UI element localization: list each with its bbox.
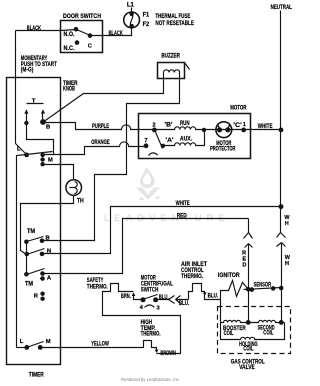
air inlet control thermostat <box>189 284 205 300</box>
motor node A <box>161 144 165 148</box>
high temp thermostat loop <box>103 284 181 354</box>
door switch contact C <box>88 33 93 38</box>
svg-text:A: A <box>47 275 52 281</box>
svg-text:BROWN: BROWN <box>160 350 176 357</box>
svg-text:C: C <box>88 43 93 49</box>
svg-text:N.O.: N.O. <box>64 31 75 38</box>
svg-text:THERMO.: THERMO. <box>141 331 161 338</box>
motor centrifugal arc <box>149 153 158 156</box>
svg-text:AUX.: AUX. <box>180 135 192 142</box>
svg-text:DOOR SWITCH: DOOR SWITCH <box>63 13 101 20</box>
svg-text:COIL: COIL <box>263 330 273 337</box>
svg-text:KNOB: KNOB <box>63 86 75 93</box>
timer bottom L M <box>17 347 27 349</box>
wire buzzer right leg to TM B <box>43 73 180 241</box>
svg-text:B: B <box>46 236 50 242</box>
TM contact A double <box>40 271 45 276</box>
svg-text:TM: TM <box>25 280 33 287</box>
wire black rail top <box>16 31 61 144</box>
svg-text:BLACK: BLACK <box>109 30 124 37</box>
thermostat TH <box>66 180 82 196</box>
wire BLU with connector <box>156 296 175 304</box>
TM arm N <box>27 249 45 255</box>
svg-text:RED: RED <box>177 212 187 219</box>
motor switch arm <box>155 130 163 149</box>
svg-text:L1: L1 <box>127 1 135 8</box>
svg-text:PROTECTOR: PROTECTOR <box>210 146 236 153</box>
motor box <box>139 114 251 159</box>
svg-text:TH: TH <box>77 197 84 204</box>
svg-text:'C': 'C' <box>233 122 242 129</box>
svg-text:VALVE: VALVE <box>239 364 255 371</box>
svg-text:1: 1 <box>243 122 247 128</box>
wire C to fuse <box>91 28 132 36</box>
timer contacts M <box>40 153 44 157</box>
svg-text:SENSOR: SENSOR <box>254 282 272 289</box>
holding coil loop <box>221 323 285 340</box>
wire WHITE lower <box>43 207 281 254</box>
svg-text:Rendered by LeadVenture, Inc.: Rendered by LeadVenture, Inc. <box>121 377 180 383</box>
svg-text:N.C.: N.C. <box>64 45 75 52</box>
wire into door switch <box>61 30 77 31</box>
timer arrows <box>27 112 43 123</box>
svg-text:2: 2 <box>152 122 155 128</box>
svg-text:R: R <box>34 294 39 300</box>
svg-text:YELLOW: YELLOW <box>91 340 109 347</box>
wire PURPLE <box>43 123 155 130</box>
svg-text:PURPLE: PURPLE <box>92 123 109 130</box>
wire buzzer left leg to timer knob diagonal <box>43 73 164 123</box>
wire YELLOW <box>41 341 157 352</box>
svg-text:NEUTRAL: NEUTRAL <box>271 4 292 11</box>
TM lower pole <box>24 272 29 277</box>
svg-text:BUZZER: BUZZER <box>161 52 180 59</box>
svg-text:WHITE: WHITE <box>176 200 190 207</box>
timer L arm <box>27 152 53 155</box>
wire M to TH <box>43 165 74 180</box>
svg-text:7: 7 <box>144 138 147 144</box>
svg-text:F1: F1 <box>143 12 150 19</box>
timer contact left <box>24 121 28 125</box>
svg-text:F2: F2 <box>143 21 150 28</box>
svg-text:3: 3 <box>157 305 161 311</box>
svg-text:IGNITOR: IGNITOR <box>218 272 240 279</box>
svg-text:COIL: COIL <box>243 346 253 353</box>
svg-text:(M-G): (M-G) <box>21 66 34 73</box>
svg-text:SWITCH: SWITCH <box>141 287 159 294</box>
svg-text:N: N <box>47 248 51 254</box>
svg-text:ORANGE: ORANGE <box>91 139 110 146</box>
wire T contact to M rail <box>27 123 54 155</box>
svg-text:BLACK: BLACK <box>27 25 42 32</box>
svg-text:BLU.: BLU. <box>159 294 169 301</box>
connector arrow BRN <box>132 292 136 296</box>
door switch contact N.C. <box>75 40 80 45</box>
svg-text:NOT RESETABLE: NOT RESETABLE <box>155 20 194 27</box>
door switch arm <box>77 30 91 36</box>
svg-text:WHITE: WHITE <box>258 123 273 130</box>
svg-text:M: M <box>48 158 53 164</box>
timer contact L <box>16 144 27 348</box>
svg-text:MOTOR: MOTOR <box>230 104 247 111</box>
svg-text:RUN: RUN <box>180 120 190 127</box>
svg-text:M: M <box>46 339 51 345</box>
motor protector <box>205 129 251 131</box>
svg-text:4: 4 <box>140 305 144 311</box>
wire neutral vertical <box>280 11 282 207</box>
motor pin C 1 <box>241 127 246 132</box>
gas control valve dashed box <box>218 307 291 354</box>
door switch box <box>61 21 103 53</box>
booster coil <box>221 320 249 322</box>
node neutral junction lower <box>279 204 284 209</box>
svg-text:BLU.: BLU. <box>208 292 219 299</box>
TM contact B <box>40 238 45 243</box>
svg-text:L: L <box>17 146 21 152</box>
wire WH into valve <box>281 289 283 323</box>
wire WHITE to neutral <box>251 129 281 131</box>
motor pin 2 <box>152 127 157 132</box>
TM contact N <box>40 252 45 257</box>
node neutral junction upper <box>279 127 284 132</box>
svg-text:BRN.: BRN. <box>121 293 131 300</box>
svg-text:TIMER: TIMER <box>29 372 44 379</box>
second coil <box>249 320 285 322</box>
svg-text:THERMO.: THERMO. <box>181 273 203 280</box>
svg-text:D: D <box>242 263 246 269</box>
svg-text:TM: TM <box>27 228 35 235</box>
timer contact B knob <box>40 119 46 125</box>
svg-text:'B': 'B' <box>165 121 174 128</box>
motor pin 7 <box>144 143 149 148</box>
TM arm B <box>27 237 44 242</box>
timer box <box>7 78 61 365</box>
watermark logo <box>136 167 160 200</box>
svg-text:H: H <box>285 261 289 267</box>
node junction <box>202 128 206 132</box>
wire RED into valve <box>248 290 250 323</box>
wire TH to TM pole <box>21 196 74 255</box>
svg-text:H: H <box>285 221 289 227</box>
svg-text:B: B <box>46 124 50 130</box>
svg-text:THERMO.: THERMO. <box>87 283 108 290</box>
TM arm A <box>27 269 45 275</box>
svg-text:L: L <box>20 339 24 345</box>
sensor line <box>244 288 282 290</box>
svg-text:'A': 'A' <box>166 137 175 144</box>
connector break WH <box>277 207 286 238</box>
wire M rail / ORANGE <box>43 142 147 155</box>
svg-text:BLU.: BLU. <box>179 300 190 307</box>
svg-text:COIL: COIL <box>224 330 234 337</box>
door switch contact N.O. <box>74 27 79 32</box>
wire RED <box>43 219 249 274</box>
connector break RED <box>244 219 253 239</box>
